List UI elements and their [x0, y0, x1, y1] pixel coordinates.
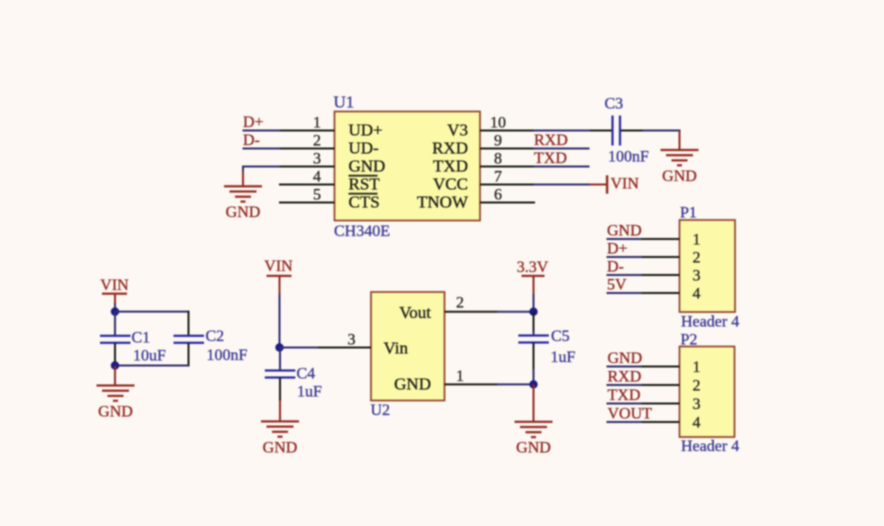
- svg-text:1: 1: [313, 114, 321, 131]
- ground GND at U1 pin 3: [224, 185, 262, 221]
- U1 pin 1: [279, 114, 335, 131]
- svg-text:9: 9: [494, 132, 502, 149]
- svg-text:V3: V3: [447, 121, 468, 140]
- wire 5V to P1 pin 4: [607, 292, 642, 294]
- U2 pin 3: [318, 332, 371, 349]
- svg-text:7: 7: [494, 168, 502, 185]
- svg-text:D+: D+: [607, 241, 628, 258]
- svg-text:VOUT: VOUT: [608, 406, 653, 423]
- power port VIN at regulator input: [264, 258, 293, 348]
- P1 pin 4: [641, 286, 701, 303]
- junction VIN / C4 / U2 Vin: [275, 343, 283, 351]
- svg-text:GND: GND: [607, 223, 642, 240]
- capacitor C1 10uF: [100, 330, 166, 365]
- U1 pin 7: [480, 168, 534, 185]
- svg-text:D-: D-: [243, 132, 260, 149]
- svg-text:3: 3: [348, 332, 356, 349]
- wire RXD to P2 pin 2: [607, 384, 642, 386]
- svg-text:1uF: 1uF: [297, 383, 322, 400]
- svg-text:TNOW: TNOW: [417, 193, 469, 212]
- svg-text:GND: GND: [394, 374, 431, 393]
- wire VOUT to P2 pin 4: [607, 421, 642, 423]
- wire C1 top to C2 top: [115, 311, 189, 336]
- svg-text:3: 3: [693, 396, 701, 413]
- wire RXD stub at U1 pin 9: [534, 148, 590, 150]
- svg-text:VIN: VIN: [264, 258, 293, 275]
- svg-text:D+: D+: [243, 114, 264, 131]
- wire D+ to P1 pin 2: [607, 256, 642, 258]
- svg-text:GND: GND: [349, 157, 386, 176]
- svg-text:C4: C4: [297, 366, 316, 383]
- wire GND to P1 pin 1: [607, 238, 642, 240]
- svg-text:6: 6: [494, 186, 502, 203]
- wire D- to P1 pin 3: [607, 274, 642, 276]
- svg-text:VIN: VIN: [611, 176, 640, 193]
- capacitor C5 1uF: [518, 312, 575, 386]
- wire junction to U2 pin 3: [280, 347, 320, 349]
- svg-text:1: 1: [693, 359, 701, 376]
- wire TXD stub at U1 pin 8: [534, 166, 590, 168]
- wire U2 pin 2 to 3.3V / C5: [497, 311, 534, 313]
- U1 pin 4: [279, 168, 335, 185]
- svg-text:CTS: CTS: [349, 193, 380, 212]
- svg-text:P2: P2: [681, 332, 698, 349]
- U1 pin name RST with overbar: [349, 175, 381, 194]
- svg-text:10uF: 10uF: [133, 348, 166, 365]
- ground GND at C5: [515, 421, 553, 457]
- svg-text:8: 8: [494, 150, 502, 167]
- svg-text:100nF: 100nF: [207, 347, 248, 364]
- svg-text:C2: C2: [206, 328, 225, 345]
- wire U1 pin 3 to ground: [243, 166, 280, 187]
- junction VIN / C1 top: [111, 307, 119, 315]
- wire GND to P2 pin 1: [607, 366, 642, 368]
- svg-text:UD+: UD+: [349, 121, 383, 140]
- svg-text:1uF: 1uF: [551, 349, 576, 366]
- svg-text:Header 4: Header 4: [681, 438, 739, 455]
- P1 pin 1: [641, 232, 701, 249]
- U2 pin 2: [445, 294, 498, 311]
- svg-text:1: 1: [693, 232, 701, 249]
- svg-text:C3: C3: [605, 96, 624, 113]
- svg-text:TXD: TXD: [534, 150, 567, 167]
- P1 pin 3: [641, 268, 701, 285]
- P2 pin 4: [641, 415, 701, 432]
- junction C1 bottom / ground: [111, 361, 119, 369]
- svg-text:2: 2: [313, 132, 321, 149]
- capacitor C2 100nF: [174, 328, 248, 364]
- P2 pin 3: [641, 396, 701, 413]
- capacitor C4 1uF: [265, 348, 322, 402]
- svg-text:U1: U1: [334, 93, 355, 112]
- U1 pin 5: [279, 186, 335, 203]
- regulator U2 body: [371, 292, 445, 419]
- svg-text:P1: P1: [680, 204, 697, 221]
- svg-text:2: 2: [693, 250, 701, 267]
- wire U1 pin 7 to VIN port: [534, 184, 590, 186]
- svg-text:1: 1: [456, 368, 464, 385]
- svg-text:3: 3: [313, 150, 321, 167]
- svg-text:RST: RST: [349, 175, 381, 194]
- wire C3 to ground: [643, 131, 681, 150]
- svg-text:RXD: RXD: [534, 132, 568, 149]
- U1 pin 3: [279, 150, 335, 167]
- wire D+ to U1 pin 1: [243, 130, 281, 132]
- svg-text:C1: C1: [132, 330, 151, 347]
- U1 pin 2: [279, 132, 335, 149]
- U2 pin 1: [445, 368, 498, 385]
- wire TXD to P2 pin 3: [607, 403, 642, 405]
- junction C5 bottom / ground: [529, 380, 537, 388]
- svg-text:TXD: TXD: [608, 387, 641, 404]
- wire junction to ground: [533, 384, 535, 421]
- svg-text:D-: D-: [607, 259, 624, 276]
- capacitor C3 100nF: [590, 96, 649, 166]
- svg-text:5V: 5V: [607, 277, 627, 294]
- wire U2 pin 1 to C5 bottom: [497, 383, 534, 385]
- connector P1 Header 4 body: [680, 204, 740, 330]
- svg-text:2: 2: [693, 378, 701, 395]
- wire C4 to ground: [279, 401, 281, 422]
- svg-text:Vin: Vin: [384, 338, 409, 357]
- junction 3.3V / C5 top: [529, 308, 537, 316]
- svg-text:Header 4: Header 4: [681, 314, 739, 331]
- svg-text:10: 10: [490, 114, 506, 131]
- svg-text:VCC: VCC: [433, 175, 468, 194]
- svg-text:TXD: TXD: [433, 157, 468, 176]
- U1 pin 8: [480, 150, 534, 167]
- svg-text:5: 5: [313, 186, 321, 203]
- svg-text:U2: U2: [371, 402, 391, 419]
- wire D- to U1 pin 2: [243, 148, 281, 150]
- svg-text:4: 4: [693, 286, 701, 303]
- P2 pin 1: [641, 359, 701, 376]
- svg-text:Vout: Vout: [399, 303, 431, 322]
- P1 pin 2: [641, 250, 701, 267]
- ground GND at C4: [261, 420, 299, 456]
- ground GND at C1 C2: [97, 384, 135, 420]
- U1 pin name CTS with overbar: [349, 193, 380, 212]
- svg-text:4: 4: [693, 415, 701, 432]
- power port VIN (input filter section): [100, 277, 129, 312]
- svg-text:UD-: UD-: [349, 139, 380, 158]
- P2 pin 2: [641, 378, 701, 395]
- svg-text:RXD: RXD: [432, 139, 468, 158]
- op-amp U1 CH340E IC body: [334, 93, 481, 241]
- svg-text:3.3V: 3.3V: [517, 259, 549, 276]
- wire junction to ground: [114, 366, 116, 386]
- U1 pin 9: [480, 132, 534, 149]
- wire C1 bottom to C2 bottom: [115, 343, 189, 367]
- power port VIN at U1 pin 7: [590, 175, 640, 193]
- svg-text:4: 4: [313, 168, 321, 185]
- U1 pin 10: [480, 114, 534, 131]
- svg-text:3: 3: [693, 268, 701, 285]
- svg-text:VIN: VIN: [100, 277, 129, 294]
- wire U1 pin 10 to C3: [534, 130, 592, 132]
- svg-text:RXD: RXD: [608, 369, 642, 386]
- svg-text:CH340E: CH340E: [334, 223, 390, 240]
- connector P2 Header 4 body: [680, 332, 740, 455]
- ground GND at C3: [661, 149, 699, 185]
- svg-text:GND: GND: [608, 350, 643, 367]
- svg-text:2: 2: [456, 294, 464, 311]
- power port 3.3V: [517, 259, 549, 312]
- svg-text:C5: C5: [551, 328, 570, 345]
- U1 pin 6 stub: [480, 186, 535, 203]
- svg-text:100nF: 100nF: [608, 149, 649, 166]
